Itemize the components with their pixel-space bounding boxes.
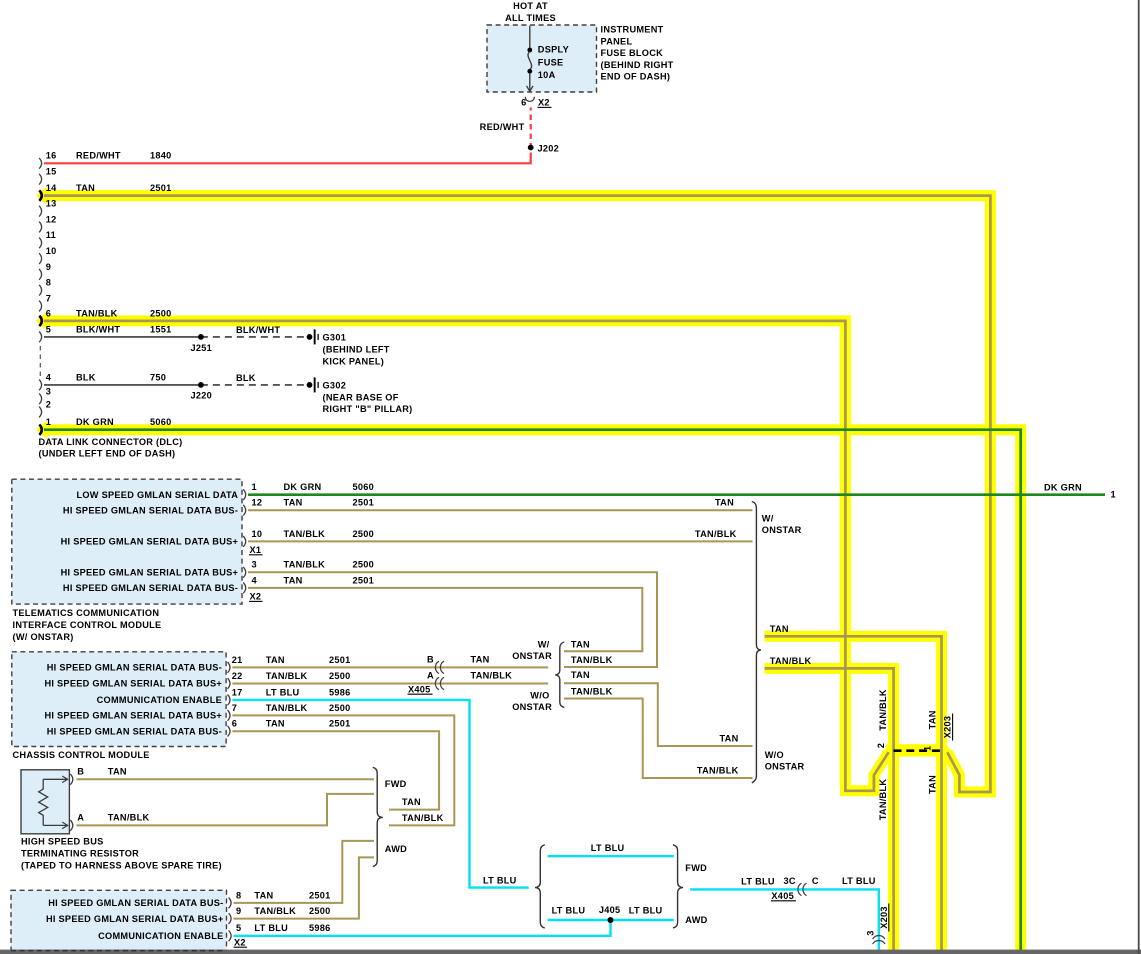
svg-text:X2: X2 (234, 937, 246, 947)
label X405 pin A (427, 671, 434, 681)
wire TAN/BLK fan row 4 (to W/O ONSTAR row) (564, 699, 753, 779)
svg-text:2500: 2500 (329, 703, 351, 713)
svg-text:12: 12 (252, 498, 263, 508)
labels telematics pin 12 row (252, 498, 375, 508)
wire TAN highlight (merged W/-W/O to X203 pin 1) (765, 636, 942, 950)
labels chassis pin 6 row (232, 719, 351, 729)
wire TAN (terminating resistor pin B) (77, 778, 375, 780)
svg-text:KICK PANEL): KICK PANEL) (323, 356, 385, 366)
DLC pin 5 (39, 332, 42, 343)
wire TAN/BLK 2500 (chassis pin 22 through X405 A to fan brace) (232, 683, 548, 685)
svg-text:A: A (427, 671, 434, 681)
svg-text:RED/WHT: RED/WHT (76, 151, 121, 161)
svg-text:1: 1 (923, 746, 933, 751)
svg-text:3: 3 (866, 930, 876, 935)
svg-text:TAN/BLK: TAN/BLK (108, 813, 150, 823)
telematics pin 10 bracket (243, 536, 246, 547)
svg-text:LT BLU: LT BLU (629, 905, 663, 915)
chassis pin 6 bracket (228, 726, 231, 737)
svg-text:TAN/BLK: TAN/BLK (254, 906, 296, 916)
svg-text:750: 750 (150, 372, 166, 382)
svg-text:TAN: TAN (254, 890, 273, 900)
svg-text:HOT AT: HOT AT (513, 1, 548, 11)
svg-text:B: B (427, 655, 434, 665)
labels telematics module body (61, 490, 239, 593)
label instrument panel fuse block (601, 25, 674, 82)
telematics communication interface control module box (12, 479, 242, 604)
svg-text:2500: 2500 (353, 560, 375, 570)
svg-text:FUSE: FUSE (538, 57, 564, 67)
label TAN/BLK before big brace (695, 529, 737, 539)
labels telematics pin 3 row (252, 560, 375, 570)
telematics pin 4 bracket (243, 583, 246, 594)
label W/ ONSTAR at big brace (762, 514, 802, 536)
svg-text:TAN: TAN (927, 775, 937, 794)
svg-text:HI SPEED GMLAN SERIAL DATA BUS: HI SPEED GMLAN SERIAL DATA BUS+ (44, 711, 222, 721)
svg-text:5060: 5060 (353, 482, 375, 492)
svg-text:TAN/BLK: TAN/BLK (471, 671, 513, 681)
svg-text:3: 3 (46, 386, 51, 396)
svg-text:X1: X1 (250, 545, 262, 555)
svg-text:FWD: FWD (385, 779, 407, 789)
svg-text:TERMINATING RESISTOR: TERMINATING RESISTOR (21, 849, 139, 859)
svg-text:TAN: TAN (266, 655, 285, 665)
svg-text:FUSE BLOCK: FUSE BLOCK (601, 48, 664, 58)
svg-text:TAN/BLK: TAN/BLK (695, 529, 737, 539)
DLC pin 3 (39, 393, 42, 404)
right page border (1138, 0, 1140, 954)
svg-text:INSTRUMENT: INSTRUMENT (601, 25, 664, 35)
labels chassis pin 7 row (232, 703, 351, 713)
chassis control module box (12, 652, 226, 747)
labels LT BLU AWD branch with J405 (552, 905, 663, 916)
svg-text:X203: X203 (943, 716, 953, 739)
svg-text:TAN/BLK: TAN/BLK (76, 308, 118, 318)
big brace (4 wires to merged pair) (752, 502, 761, 783)
svg-text:ONSTAR: ONSTAR (512, 651, 552, 661)
svg-text:TAN: TAN (402, 797, 421, 807)
telematics pin 3 bracket (243, 567, 246, 578)
chassis pin 7 bracket (228, 710, 231, 721)
svg-text:TAN: TAN (471, 655, 490, 665)
DLC pin 12 (39, 222, 42, 233)
svg-text:BLK/WHT: BLK/WHT (236, 325, 280, 335)
label TAN/BLK out of FWD/AWD brace (402, 813, 444, 823)
svg-text:LOW SPEED GMLAN SERIAL DATA: LOW SPEED GMLAN SERIAL DATA (76, 490, 238, 500)
svg-text:LT BLU: LT BLU (266, 687, 300, 697)
wire BLK/WHT 1551 (DLC pin 5 to J251) (44, 336, 201, 338)
splice J251 (198, 334, 204, 340)
DLC pin 14 (bold, highlighted) (39, 190, 42, 200)
svg-text:W/: W/ (762, 514, 774, 524)
svg-text:RIGHT "B" PILLAR): RIGHT "B" PILLAR) (323, 404, 413, 414)
svg-text:5986: 5986 (309, 923, 331, 933)
svg-text:8: 8 (236, 890, 241, 900)
label LT BLU at split brace (483, 875, 517, 885)
svg-text:B: B (77, 767, 84, 777)
label DLC pin 3 (46, 386, 51, 396)
svg-text:FWD: FWD (685, 863, 707, 873)
svg-text:4: 4 (46, 372, 52, 382)
wire BLK/WHT dashed (J251 to G301) (201, 336, 305, 338)
wire TAN/BLK (terminating resistor pin A) (77, 794, 375, 826)
svg-text:13: 13 (46, 199, 57, 209)
svg-text:INTERFACE CONTROL MODULE: INTERFACE CONTROL MODULE (13, 620, 162, 630)
wire DK GRN 5060 thin (telematics pin 1 serial data, off page right) (248, 493, 1105, 496)
chassis pin 22 bracket (228, 678, 231, 689)
label W/O ONSTAR at big brace (765, 750, 805, 772)
svg-text:X203: X203 (879, 906, 889, 929)
wire TAN fan row 3 (to W/O ONSTAR row) (564, 683, 753, 746)
svg-text:5060: 5060 (150, 417, 172, 427)
label fan row 3 TAN (571, 670, 590, 680)
svg-text:HI SPEED GMLAN SERIAL DATA BUS: HI SPEED GMLAN SERIAL DATA BUS+ (61, 568, 239, 578)
label W/ ONSTAR at fan brace (512, 639, 552, 660)
svg-text:LT BLU: LT BLU (741, 876, 775, 886)
svg-text:ONSTAR: ONSTAR (762, 525, 802, 535)
labels ground G302 (323, 381, 413, 415)
svg-text:TAN: TAN (715, 498, 734, 508)
svg-text:9: 9 (236, 906, 241, 916)
svg-text:TAN: TAN (108, 767, 127, 777)
wire LT BLU AWD branch (548, 919, 674, 921)
svg-text:1840: 1840 (150, 151, 172, 161)
svg-text:11: 11 (46, 230, 56, 240)
svg-text:5986: 5986 (329, 687, 351, 697)
ground G301 symbol (307, 329, 319, 344)
svg-text:5: 5 (46, 324, 51, 334)
svg-text:ALL TIMES: ALL TIMES (505, 13, 556, 23)
svg-text:X2: X2 (250, 592, 262, 602)
label chassis module title (13, 750, 150, 760)
svg-text:HI SPEED GMLAN SERIAL DATA BUS: HI SPEED GMLAN SERIAL DATA BUS+ (61, 537, 239, 547)
svg-text:1: 1 (1111, 490, 1116, 500)
svg-text:TAN: TAN (266, 719, 285, 729)
svg-text:2500: 2500 (353, 529, 375, 539)
svg-text:AWD: AWD (685, 915, 707, 925)
svg-text:12: 12 (46, 214, 57, 224)
wire LT BLU 5986 (chassis pin 17 communication enable) (232, 700, 528, 888)
splice J220 (198, 382, 204, 388)
svg-text:10: 10 (252, 529, 263, 539)
wire TAN/BLK 2500 (rear module pin 9 to FWD/AWD brace) (234, 857, 375, 918)
telematics pin 12 bracket (243, 505, 246, 516)
svg-text:TAN: TAN (284, 575, 303, 585)
DLC pin 13 (39, 206, 42, 217)
svg-text:TELEMATICS COMMUNICATION: TELEMATICS COMMUNICATION (13, 608, 160, 618)
connector X203 highlight patch (884, 744, 952, 758)
label DLC pin 2 (46, 399, 51, 409)
resistor element zigzag (39, 779, 48, 825)
label terminating resistor title (21, 837, 222, 871)
svg-text:10A: 10A (538, 70, 556, 80)
wire TAN 2501 (chassis pin 21 through X405 B to fan brace) (232, 666, 548, 668)
labels chassis module body (44, 663, 222, 737)
label rear module connector X2 (234, 937, 248, 947)
svg-text:21: 21 (232, 655, 243, 665)
svg-text:14: 14 (46, 183, 57, 193)
wire LT BLU 5986 (rear module pin 5 to splice J405) (234, 920, 611, 936)
labels telematics pin 10 row (252, 529, 375, 539)
label merged TAN/BLK (770, 656, 812, 666)
DLC pin 6 (bold, highlighted) (39, 316, 42, 326)
fan brace (2 to 4, W/ and W/O ONSTAR split) (555, 642, 564, 708)
inline connector X405 pin B (435, 661, 444, 673)
svg-text:LT BLU: LT BLU (591, 843, 625, 853)
labels rear module pin 5 row (236, 923, 331, 933)
DLC pin 7 (39, 301, 42, 312)
label splice J220 (191, 391, 213, 401)
labels X203 pin 3 rotated (LT BLU) (866, 904, 889, 936)
DLC pin 4 (39, 380, 42, 391)
DLC pin 10 (39, 253, 42, 264)
label DLC pin 12 (46, 214, 57, 224)
svg-text:TAN: TAN (927, 710, 937, 729)
label fan row 1 TAN (571, 640, 590, 650)
svg-text:6: 6 (232, 719, 237, 729)
chassis pin 21 bracket (228, 662, 231, 673)
svg-text:BLK: BLK (76, 372, 96, 382)
labels ground G301 (323, 333, 390, 367)
rear module pin 5 bracket (229, 930, 232, 941)
inline connector X203 pin 3 (LT BLU vertical) (873, 936, 885, 945)
svg-text:(BEHIND RIGHT: (BEHIND RIGHT (601, 60, 674, 70)
wire TAN/BLK 2500 (telematics pin 10 to W/ONSTAR brace) (248, 540, 753, 542)
svg-text:2501: 2501 (309, 890, 331, 900)
svg-text:7: 7 (232, 703, 237, 713)
label HOT AT ALL TIMES (505, 1, 556, 23)
svg-text:1: 1 (46, 417, 51, 427)
svg-text:ONSTAR: ONSTAR (512, 702, 552, 712)
labels telematics pin 1 row (252, 482, 375, 492)
labels rear module pin 9 row (236, 906, 331, 916)
svg-text:J202: J202 (538, 143, 560, 153)
wire TAN/BLK highlight (merged W/-W/O to X203 pin 2) (765, 668, 894, 950)
label telematics module title (13, 608, 162, 642)
rear module pin 9 bracket (229, 913, 232, 924)
svg-text:1551: 1551 (150, 324, 172, 334)
svg-text:END OF DASH): END OF DASH) (601, 72, 671, 82)
label RED/WHT vertical wire (480, 122, 525, 132)
LT BLU close brace (673, 845, 683, 928)
fuse DSPLY 10A symbol (527, 26, 534, 92)
DLC pin 8 (39, 285, 42, 296)
DLC pin 15 (39, 174, 42, 185)
DLC connector body dashed segment (39, 346, 41, 378)
wire TAN/BLK 2500 core (DLC pin 6 to X203 pin 2 merge) (44, 321, 889, 791)
labels X203 connector rotated (upper) (876, 689, 953, 751)
label telematics connector X1 (249, 545, 263, 555)
svg-text:2500: 2500 (329, 671, 351, 681)
svg-text:6: 6 (521, 98, 526, 108)
svg-text:C: C (812, 876, 819, 886)
svg-text:TAN/BLK: TAN/BLK (571, 687, 613, 697)
svg-text:LT BLU: LT BLU (552, 905, 586, 915)
svg-text:HI SPEED GMLAN SERIAL DATA BUS: HI SPEED GMLAN SERIAL DATA BUS- (48, 898, 223, 908)
DLC pin 2 (39, 407, 42, 418)
svg-text:J405: J405 (599, 905, 621, 915)
svg-text:2501: 2501 (329, 719, 351, 729)
svg-text:TAN: TAN (719, 734, 738, 744)
svg-text:DK GRN: DK GRN (1044, 482, 1082, 492)
label merged TAN (770, 624, 789, 634)
svg-text:CHASSIS CONTROL MODULE: CHASSIS CONTROL MODULE (13, 750, 150, 760)
label X405 pin B (427, 655, 434, 665)
wire BLK dashed (J220 to G302) (201, 384, 305, 386)
label TAN before big brace (715, 498, 734, 508)
svg-text:X2: X2 (538, 98, 550, 108)
labels rear module body (46, 898, 224, 941)
svg-text:W/: W/ (538, 639, 550, 649)
splice J405 (608, 917, 614, 923)
svg-text:TAN/BLK: TAN/BLK (284, 529, 326, 539)
labels FWD AWD at LT BLU brace (685, 863, 707, 925)
svg-text:TAN: TAN (571, 670, 590, 680)
label TAN/BLK W/O ONSTAR row (697, 766, 739, 776)
svg-text:TAN/BLK: TAN/BLK (284, 560, 326, 570)
high speed bus terminating resistor box (21, 770, 69, 834)
svg-text:HI SPEED GMLAN SERIAL DATA BUS: HI SPEED GMLAN SERIAL DATA BUS- (47, 663, 222, 673)
telematics pin 1 bracket (243, 489, 246, 500)
LT BLU split brace (535, 845, 545, 928)
svg-text:6: 6 (46, 308, 51, 318)
label DLC pin 8 (46, 278, 51, 288)
wire BLK 750 (DLC pin 4 to J220) (44, 384, 201, 386)
svg-text:X405: X405 (408, 684, 431, 694)
label fuse output pin 6 X2 (521, 98, 551, 108)
svg-text:HI SPEED GMLAN SERIAL DATA BUS: HI SPEED GMLAN SERIAL DATA BUS- (63, 505, 238, 515)
svg-text:TAN/BLK: TAN/BLK (878, 689, 888, 731)
rear differential clutch control module box (11, 890, 227, 950)
label DK GRN off-page right (1044, 482, 1116, 499)
svg-text:HI SPEED GMLAN SERIAL DATA BUS: HI SPEED GMLAN SERIAL DATA BUS+ (46, 914, 224, 924)
wire TAN/BLK 2500 (telematics pin 3 to fan row 2) (248, 572, 657, 667)
label DLC pin 10 (46, 246, 57, 256)
svg-text:BLK: BLK (236, 373, 256, 383)
svg-text:(UNDER LEFT END OF DASH): (UNDER LEFT END OF DASH) (39, 449, 176, 459)
svg-text:HI SPEED GMLAN SERIAL DATA BUS: HI SPEED GMLAN SERIAL DATA BUS- (63, 583, 238, 593)
instrument panel fuse block box (487, 25, 597, 92)
FWD/AWD brace (TAN bus) (373, 767, 383, 866)
labels DLC pin 1 row (46, 417, 172, 427)
svg-text:2500: 2500 (309, 906, 331, 916)
svg-text:8: 8 (46, 278, 51, 288)
wire TAN 2501 highlight (DLC pin 14 to X203) (36, 188, 990, 792)
svg-text:16: 16 (46, 151, 57, 161)
svg-text:2501: 2501 (353, 575, 375, 585)
svg-text:(W/ ONSTAR): (W/ ONSTAR) (13, 632, 74, 642)
labels DLC pin 6 row (46, 308, 172, 318)
svg-text:G301: G301 (323, 333, 347, 343)
svg-text:LT BLU: LT BLU (842, 876, 876, 886)
wire TAN 2501 (rear module pin 8 to FWD/AWD brace) (234, 841, 375, 903)
label TAN out of FWD/AWD brace (402, 797, 421, 807)
svg-text:DK GRN: DK GRN (284, 482, 322, 492)
svg-text:RED/WHT: RED/WHT (480, 122, 525, 132)
svg-text:3C: 3C (784, 876, 796, 886)
label J202 (538, 143, 560, 153)
label TAN after X405 B (471, 655, 490, 665)
labels DLC pin 14 row (46, 183, 172, 193)
labels DLC pin 5 row (46, 324, 281, 335)
svg-text:3: 3 (252, 560, 257, 570)
svg-text:LT BLU: LT BLU (254, 923, 288, 933)
svg-text:17: 17 (232, 687, 243, 697)
ground G302 symbol (307, 377, 319, 392)
svg-text:PANEL: PANEL (601, 36, 633, 46)
rear module pin 8 bracket (229, 898, 232, 909)
svg-text:TAN/BLK: TAN/BLK (571, 655, 613, 665)
DLC pin 9 (39, 269, 42, 280)
svg-text:9: 9 (46, 262, 51, 272)
svg-text:TAN: TAN (770, 624, 789, 634)
labels chassis pin 22 row (232, 671, 351, 681)
svg-text:X405: X405 (771, 891, 794, 901)
svg-text:HI SPEED GMLAN SERIAL DATA BUS: HI SPEED GMLAN SERIAL DATA BUS+ (44, 679, 222, 689)
label fan row 2 TAN/BLK (571, 655, 613, 665)
svg-text:LT BLU: LT BLU (483, 875, 517, 885)
label TAN/BLK after X405 A (471, 671, 513, 681)
wire TAN/BLK 2500 (chassis pin 7 to FWD/AWD brace) (232, 715, 454, 825)
svg-text:A: A (77, 813, 84, 823)
labels chassis pin 21 row (232, 655, 351, 665)
wire TAN 2501 (telematics pin 4 to fan row 1) (248, 588, 642, 651)
svg-text:5: 5 (236, 923, 241, 933)
DLC pin 11 (39, 237, 42, 248)
wire TAN 2501 core (DLC pin 14 to X203 pin 1 merge) (44, 196, 990, 792)
label DLC pin 11 (46, 230, 56, 240)
wire TAN merged core (brace out to X203, down to page bottom) (765, 636, 942, 950)
wire LT BLU FWD branch (548, 855, 674, 857)
svg-text:7: 7 (46, 293, 51, 303)
svg-text:10: 10 (46, 246, 57, 256)
labels LT BLU X405 3C C (741, 876, 876, 901)
svg-text:TAN/BLK: TAN/BLK (770, 656, 812, 666)
svg-text:J220: J220 (191, 391, 213, 401)
labels telematics pin 4 row (252, 575, 375, 585)
label DLC pin 9 (46, 262, 51, 272)
labels chassis pin 17 row (232, 687, 351, 697)
svg-text:TAN/BLK: TAN/BLK (697, 766, 739, 776)
svg-text:15: 15 (46, 167, 57, 177)
label DLC pin 15 (46, 167, 57, 177)
labels resistor pins B and A (77, 767, 149, 823)
label telematics connector X2 (249, 592, 263, 602)
svg-text:W/O: W/O (530, 691, 549, 701)
wire LT BLU merged (brace to X405 3C-C to X203 pin 3, page bottom) (690, 889, 879, 950)
svg-text:HI SPEED GMLAN SERIAL DATA BUS: HI SPEED GMLAN SERIAL DATA BUS- (47, 726, 222, 736)
svg-text:J251: J251 (191, 343, 213, 353)
label TAN W/O ONSTAR row (719, 734, 738, 744)
label DLC pin 7 (46, 293, 51, 303)
wire TAN 2501 (telematics pin 12 to W/ONSTAR brace) (248, 509, 753, 511)
splice J202 (528, 145, 534, 151)
svg-text:ONSTAR: ONSTAR (765, 762, 805, 772)
svg-text:2501: 2501 (329, 655, 351, 665)
svg-text:TAN/BLK: TAN/BLK (878, 779, 888, 821)
label W/O ONSTAR at fan brace (512, 691, 552, 712)
svg-text:TAN: TAN (571, 640, 590, 650)
labels DLC pin 4 row (46, 372, 256, 383)
wire DK GRN 5060 highlight (DLC pin 1 down right side) (36, 422, 1021, 950)
chassis pin 17 bracket (228, 695, 231, 706)
svg-text:TAN: TAN (76, 183, 95, 193)
bottom page band (0, 950, 1141, 954)
svg-text:AWD: AWD (385, 844, 407, 854)
svg-text:G302: G302 (323, 381, 347, 391)
svg-text:BLK/WHT: BLK/WHT (76, 324, 120, 334)
label X405 connector (408, 684, 433, 694)
